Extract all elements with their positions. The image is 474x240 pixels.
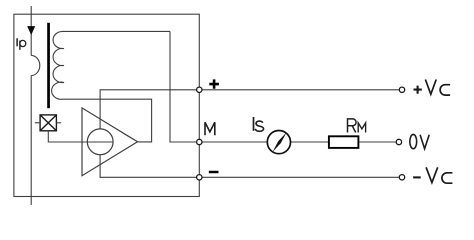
push-pull output circle [87, 129, 113, 155]
wire coil bottom to amplifier output [63, 99, 152, 142]
wire ammeter to resistor [291, 141, 329, 143]
terminal + [197, 87, 202, 92]
0V label [410, 134, 429, 148]
resistor RM [329, 136, 359, 148]
primary conductor upper segment [30, 6, 32, 55]
terminal +Vc [399, 87, 404, 92]
+ label bold [209, 79, 219, 88]
transducer housing box [14, 14, 199, 196]
terminal 0V [396, 139, 401, 144]
minus label bold [209, 171, 219, 174]
wire -Vc feed to output stage [100, 155, 196, 178]
ammeter Is [267, 131, 290, 154]
primary turn bump [31, 55, 40, 75]
wire M terminal to ammeter [203, 141, 268, 143]
Rm label [348, 119, 366, 133]
terminal M [197, 139, 202, 144]
Ip label [17, 38, 26, 50]
wire - terminal to -Vc [203, 176, 399, 178]
wire coil-top vertical to M [170, 31, 196, 142]
arrow Ip direction [27, 26, 35, 35]
-Vc label [413, 167, 452, 183]
op-amp triangle [82, 108, 138, 176]
hall right stub [56, 122, 61, 124]
wire + terminal to +Vc [203, 89, 399, 91]
M label [205, 122, 215, 135]
wire resistor to 0V [358, 141, 395, 143]
hall element square [40, 115, 56, 131]
wire +Vc feed to output stage [100, 90, 196, 129]
magnetic core bar [47, 23, 50, 108]
primary conductor lower segment [30, 76, 32, 206]
Is label [254, 117, 264, 131]
terminal -Vc [399, 175, 404, 180]
secondary coil Ls [52, 31, 64, 99]
terminal - [197, 175, 202, 180]
ammeter needle [273, 132, 287, 152]
wire hall to amplifier [48, 131, 113, 142]
hall left stub [35, 122, 40, 124]
wire coil top lead [63, 30, 171, 32]
+Vc label [414, 80, 451, 96]
